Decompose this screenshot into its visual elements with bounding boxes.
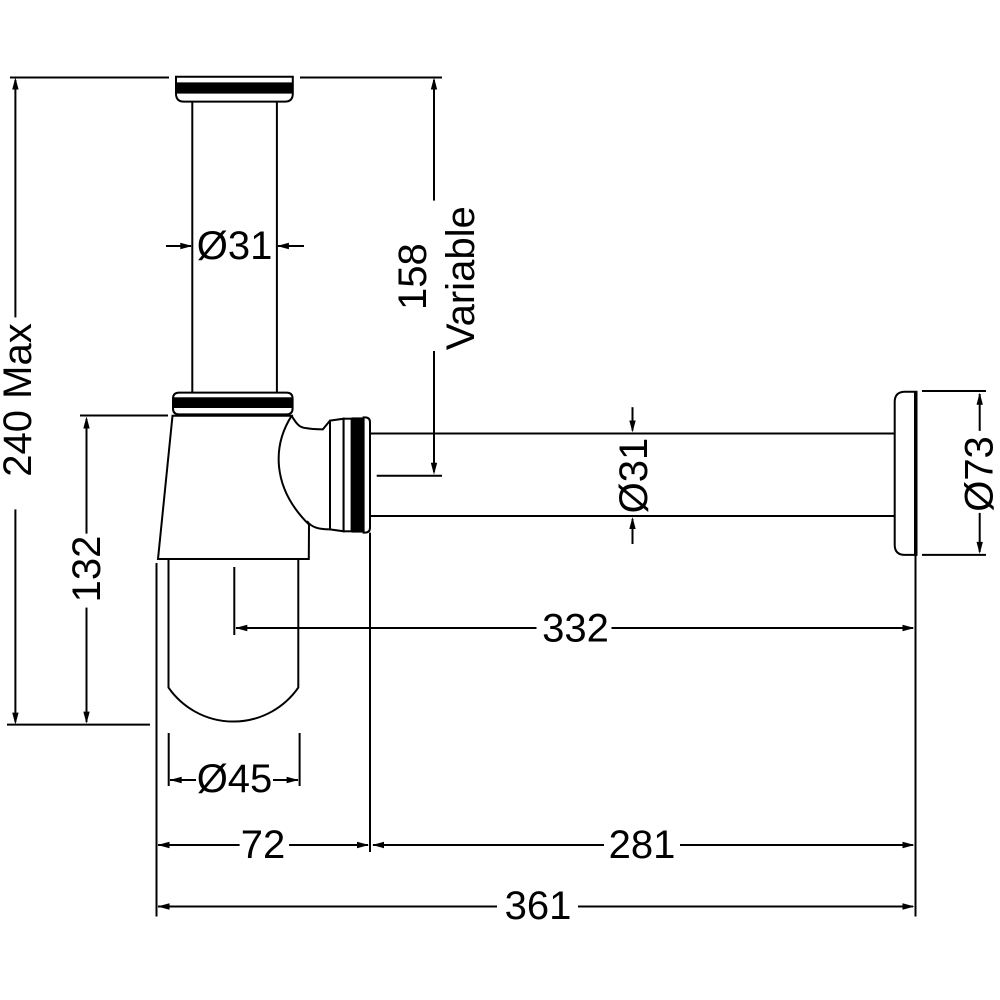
svg-text:Ø31: Ø31 <box>612 438 656 514</box>
svg-text:Ø73: Ø73 <box>958 436 1000 512</box>
svg-text:281: 281 <box>609 823 676 867</box>
svg-text:72: 72 <box>241 823 286 867</box>
svg-text:Variable: Variable <box>439 206 483 350</box>
svg-text:332: 332 <box>542 607 609 651</box>
svg-text:132: 132 <box>65 536 109 603</box>
svg-text:Ø31: Ø31 <box>197 224 273 268</box>
svg-text:361: 361 <box>505 884 572 928</box>
svg-text:158: 158 <box>391 243 435 310</box>
svg-text:240 Max: 240 Max <box>0 323 40 476</box>
svg-text:Ø45: Ø45 <box>197 757 273 801</box>
